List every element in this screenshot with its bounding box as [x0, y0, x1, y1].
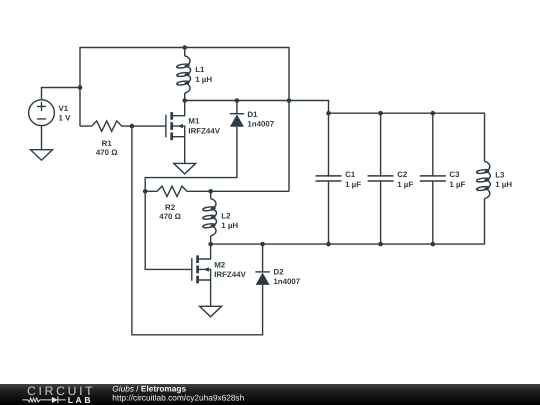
svg-text:1n4007: 1n4007	[273, 277, 300, 286]
svg-text:1n4007: 1n4007	[247, 120, 274, 129]
svg-text:C2: C2	[397, 170, 408, 179]
svg-text:IRFZ44V: IRFZ44V	[214, 270, 246, 279]
svg-text:D2: D2	[273, 267, 284, 276]
svg-text:L3: L3	[495, 171, 505, 180]
svg-text:L2: L2	[221, 211, 231, 220]
svg-text:1 µH: 1 µH	[195, 75, 212, 84]
svg-text:1 µH: 1 µH	[221, 221, 238, 230]
svg-text:R1: R1	[102, 139, 113, 148]
svg-text:470 Ω: 470 Ω	[96, 148, 118, 157]
svg-text:1 µF: 1 µF	[345, 180, 361, 189]
svg-text:M1: M1	[188, 117, 200, 126]
svg-text:LAB: LAB	[68, 395, 93, 405]
svg-text:C1: C1	[345, 170, 356, 179]
svg-text:IRFZ44V: IRFZ44V	[188, 126, 220, 135]
svg-text:D1: D1	[247, 110, 258, 119]
svg-text:1 V: 1 V	[59, 114, 72, 123]
svg-text:L1: L1	[195, 65, 205, 74]
svg-text:1 µH: 1 µH	[495, 180, 512, 189]
svg-text:C3: C3	[449, 170, 460, 179]
svg-text:V1: V1	[59, 104, 69, 113]
svg-text:http://circuitlab.com/cy2uha9x: http://circuitlab.com/cy2uha9x628sh	[112, 392, 244, 402]
svg-text:M2: M2	[214, 260, 226, 269]
svg-text:470 Ω: 470 Ω	[159, 212, 181, 221]
svg-text:R2: R2	[165, 203, 176, 212]
svg-text:1 µF: 1 µF	[397, 180, 413, 189]
svg-text:1 µF: 1 µF	[449, 180, 465, 189]
